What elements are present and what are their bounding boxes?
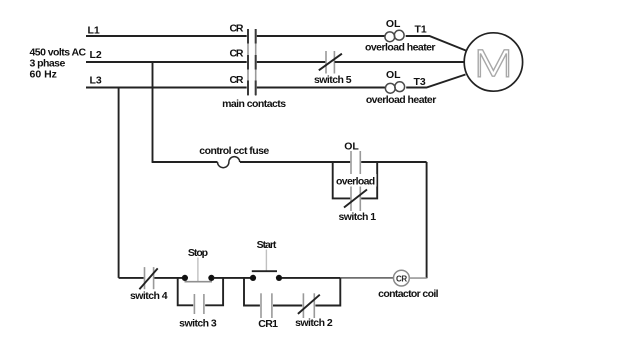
- overload label (white box): [335, 174, 377, 187]
- svg-text:Start: Start: [257, 239, 277, 251]
- switch 2 contact bars (NC): [302, 293, 304, 318]
- contact CR1 bars (NO): [260, 293, 262, 318]
- start button bridge: [252, 270, 277, 272]
- svg-text:L2: L2: [90, 49, 102, 61]
- contactor coil CR: [394, 270, 410, 286]
- svg-text:CR: CR: [230, 74, 244, 86]
- svg-text:CR: CR: [396, 274, 407, 283]
- svg-text:450 volts AC: 450 volts AC: [30, 47, 87, 59]
- wire L2 left segment: [86, 61, 247, 63]
- svg-text:switch 1: switch 1: [338, 211, 376, 223]
- wire switch4 to stop: [154, 277, 182, 279]
- wire coil to right vertical: [409, 277, 426, 279]
- switch 1 slash (NC): [344, 190, 367, 208]
- svg-text:L1: L1: [88, 25, 100, 37]
- switch 5 (NC) on L2: [325, 51, 327, 74]
- switch 3 bypass loop: [178, 278, 194, 305]
- svg-text:OL: OL: [344, 141, 359, 153]
- svg-text:switch 4: switch 4: [130, 290, 168, 302]
- switch 3 contact bars (NO): [193, 294, 195, 314]
- svg-text:overload heater: overload heater: [365, 42, 435, 54]
- motor M: [464, 33, 522, 91]
- wire L2 middle segment: [257, 61, 326, 63]
- switch 4 (NC): [144, 267, 146, 289]
- wire L3 middle segment: [257, 87, 386, 89]
- svg-text:switch 5: switch 5: [314, 74, 352, 86]
- fuse (control cct fuse): [218, 157, 240, 168]
- wire control rung middle: [240, 161, 350, 163]
- wire T3 to motor: [406, 75, 465, 88]
- wire bottom rung left: [119, 277, 144, 279]
- svg-text:control cct fuse: control cct fuse: [199, 145, 269, 157]
- switch 2 slash: [298, 295, 320, 314]
- svg-text:Stop: Stop: [188, 247, 208, 259]
- wire L1 middle segment: [257, 35, 385, 37]
- wire L1 left segment: [86, 35, 247, 37]
- stop button bridge: [185, 281, 213, 283]
- wire T2 to motor: [335, 61, 465, 63]
- svg-text:main contacts: main contacts: [222, 98, 286, 110]
- svg-text:OL: OL: [386, 18, 401, 30]
- svg-text:switch 3: switch 3: [179, 318, 217, 330]
- wire control rung left: [152, 161, 218, 163]
- svg-text:overload heater: overload heater: [366, 94, 436, 106]
- wire T1 to motor: [406, 36, 466, 51]
- wire control rung right: [361, 161, 426, 163]
- svg-text:L3: L3: [90, 75, 102, 87]
- bypass rectangle around overload contact: [333, 162, 351, 198]
- CR1 / switch 2 bypass loop: [244, 278, 260, 306]
- svg-text:OL: OL: [386, 69, 401, 81]
- stop button contact dots: [182, 275, 188, 281]
- wire L3 left segment: [86, 87, 247, 89]
- overload relay contact OL bars: [350, 151, 352, 211]
- svg-text:60 Hz: 60 Hz: [30, 69, 57, 81]
- wire control rung right vertical: [426, 162, 428, 278]
- svg-text:switch 2: switch 2: [295, 317, 333, 329]
- svg-text:CR: CR: [230, 48, 244, 60]
- wire start to coil: [282, 277, 341, 279]
- wire from L2 down to control rung: [152, 62, 154, 162]
- wire stop to start: [214, 277, 252, 279]
- svg-text:T3: T3: [414, 76, 426, 88]
- svg-text:CR1: CR1: [258, 318, 278, 330]
- stop button actuator stem: [197, 258, 199, 282]
- overload heater OL on T3: [385, 82, 404, 93]
- wire from L3 down to bottom rung: [118, 88, 120, 278]
- svg-text:T1: T1: [415, 24, 427, 36]
- svg-text:contactor coil: contactor coil: [378, 288, 438, 300]
- start button actuator stem: [265, 250, 267, 271]
- overload heater OL on T1: [385, 30, 404, 41]
- start button contact dots: [250, 275, 256, 281]
- contactor CR mechanical link bars: [247, 29, 249, 96]
- svg-text:CR: CR: [230, 23, 244, 35]
- svg-text:overload: overload: [336, 176, 375, 188]
